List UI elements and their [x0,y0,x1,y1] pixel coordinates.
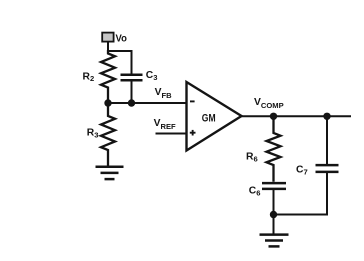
ground under R3 [96,167,124,179]
wire VREF to op-amp non-inverting input [156,133,187,135]
wire VCOMP output [242,115,352,117]
svg-text:VFB: VFB [155,87,173,100]
ground under C6 [260,235,289,247]
op-amp U1 GM error amplifier [187,82,242,151]
wire junction to ground [273,215,275,234]
svg-text:C3: C3 [146,70,158,82]
capacitor C6 [262,183,286,214]
junction dot C6/C7/ground [270,211,277,218]
svg-text:R3: R3 [87,128,99,140]
junction dot R2/R3/VFB [104,99,111,106]
junction dot R6 branch [270,113,277,120]
svg-text:R6: R6 [246,152,258,164]
terminal Vo [102,33,113,42]
svg-text:C7: C7 [296,164,308,176]
svg-text:GM: GM [202,112,216,124]
junction dot C7 branch [323,113,330,120]
wire top rail to C3 branch [108,50,132,52]
wire VFB node to op-amp inverting input [108,102,187,104]
resistor R6 [267,116,281,182]
svg-text:C6: C6 [249,186,261,198]
junction dot C3 bottom [128,99,135,106]
svg-text:Vo: Vo [116,34,127,45]
op-amp plus sign [190,130,196,136]
wire Vo to branch node [107,42,109,51]
svg-text:R2: R2 [83,71,95,83]
op-amp minus sign [190,100,195,102]
svg-text:VCOMP: VCOMP [254,97,284,110]
resistor R3 [101,103,115,168]
svg-text:VREF: VREF [154,118,176,131]
resistor R2 [101,50,115,103]
capacitor C3 [121,50,143,103]
capacitor C7 [274,116,339,214]
